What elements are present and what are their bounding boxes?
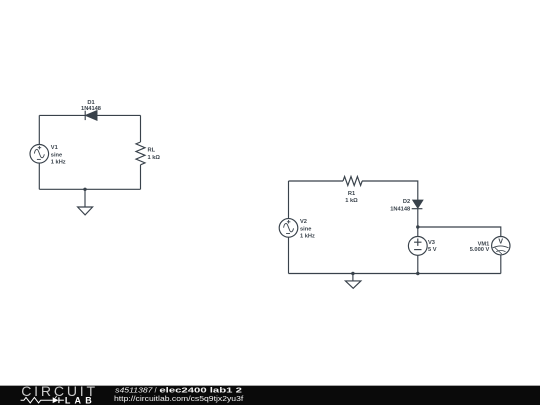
svg-text:V: V [498,239,503,246]
svg-text:1 kΩ: 1 kΩ [148,155,161,161]
svg-text:1N4148: 1N4148 [81,106,101,112]
node (left loop bottom junction) [83,188,86,191]
wire left vertical lower (V1 bottom lead) [38,163,40,189]
svg-text:1N4148: 1N4148 [390,206,410,212]
voltmeter VM1 [492,237,510,255]
svg-text:s4511387/elec2400 lab1 2: s4511387/elec2400 lab1 2 [115,388,242,395]
svg-text:RL: RL [148,148,156,154]
logo diode glyph [53,397,64,403]
wire node A to voltmeter corner [418,227,501,237]
wire left vertical lower (V2 bottom lead) [288,237,290,273]
svg-text:V2: V2 [300,219,307,225]
source V3 5V [408,237,427,256]
svg-text:1 kΩ: 1 kΩ [345,198,358,204]
node (right loop ground junction) [351,272,354,275]
logo resistor glyph [21,398,53,403]
svg-text:http://circuitlab.com/cs5q9tjx: http://circuitlab.com/cs5q9tjx2yu3f [114,396,243,403]
svg-text:1 kHz: 1 kHz [51,160,66,166]
resistor R1 [343,177,362,186]
wire bottom of right loop [289,273,501,275]
wire diode D2 to node A [417,209,419,227]
wire V3 bottom lead [417,255,419,273]
footer bar [0,385,540,405]
resistor RL [136,142,145,165]
wire left vertical upper (V1 top lead) [38,115,40,144]
wire right vertical lower (RL bottom lead) [140,165,142,190]
node A (diode / V3 / voltmeter junction) [416,225,419,228]
source V1 sine [30,145,49,164]
svg-text:5.000 V: 5.000 V [470,247,490,253]
svg-text:V1: V1 [51,145,58,151]
wire top-left of right loop [289,180,344,182]
source V2 sine [279,219,298,238]
wire left vertical upper (V2 top lead) [288,181,290,219]
svg-text:LAB: LAB [65,395,92,405]
wire node A to V3 top [417,227,419,237]
wire right vertical upper (RL top lead) [140,115,142,142]
svg-text:sine: sine [300,227,311,233]
diode D2 1N4148 [412,200,423,209]
ground (left circuit) [78,189,93,215]
wire top-right of right loop [362,181,418,200]
node (V3 bottom junction) [416,272,419,275]
svg-text:1 kHz: 1 kHz [300,234,315,240]
ground (right circuit) [345,274,361,289]
svg-text:V3: V3 [428,240,435,246]
logo C tail detail [55,396,57,398]
wire top-right of left loop [97,114,141,116]
wire voltmeter bottom lead [500,255,502,274]
svg-text:R1: R1 [348,191,355,197]
svg-text:5 V: 5 V [428,247,437,253]
wire bottom of left loop [39,188,140,190]
svg-text:sine: sine [51,152,62,158]
wire top-left of left loop [39,114,85,116]
diode D1 1N4148 [85,111,97,120]
svg-text:D2: D2 [403,199,410,205]
